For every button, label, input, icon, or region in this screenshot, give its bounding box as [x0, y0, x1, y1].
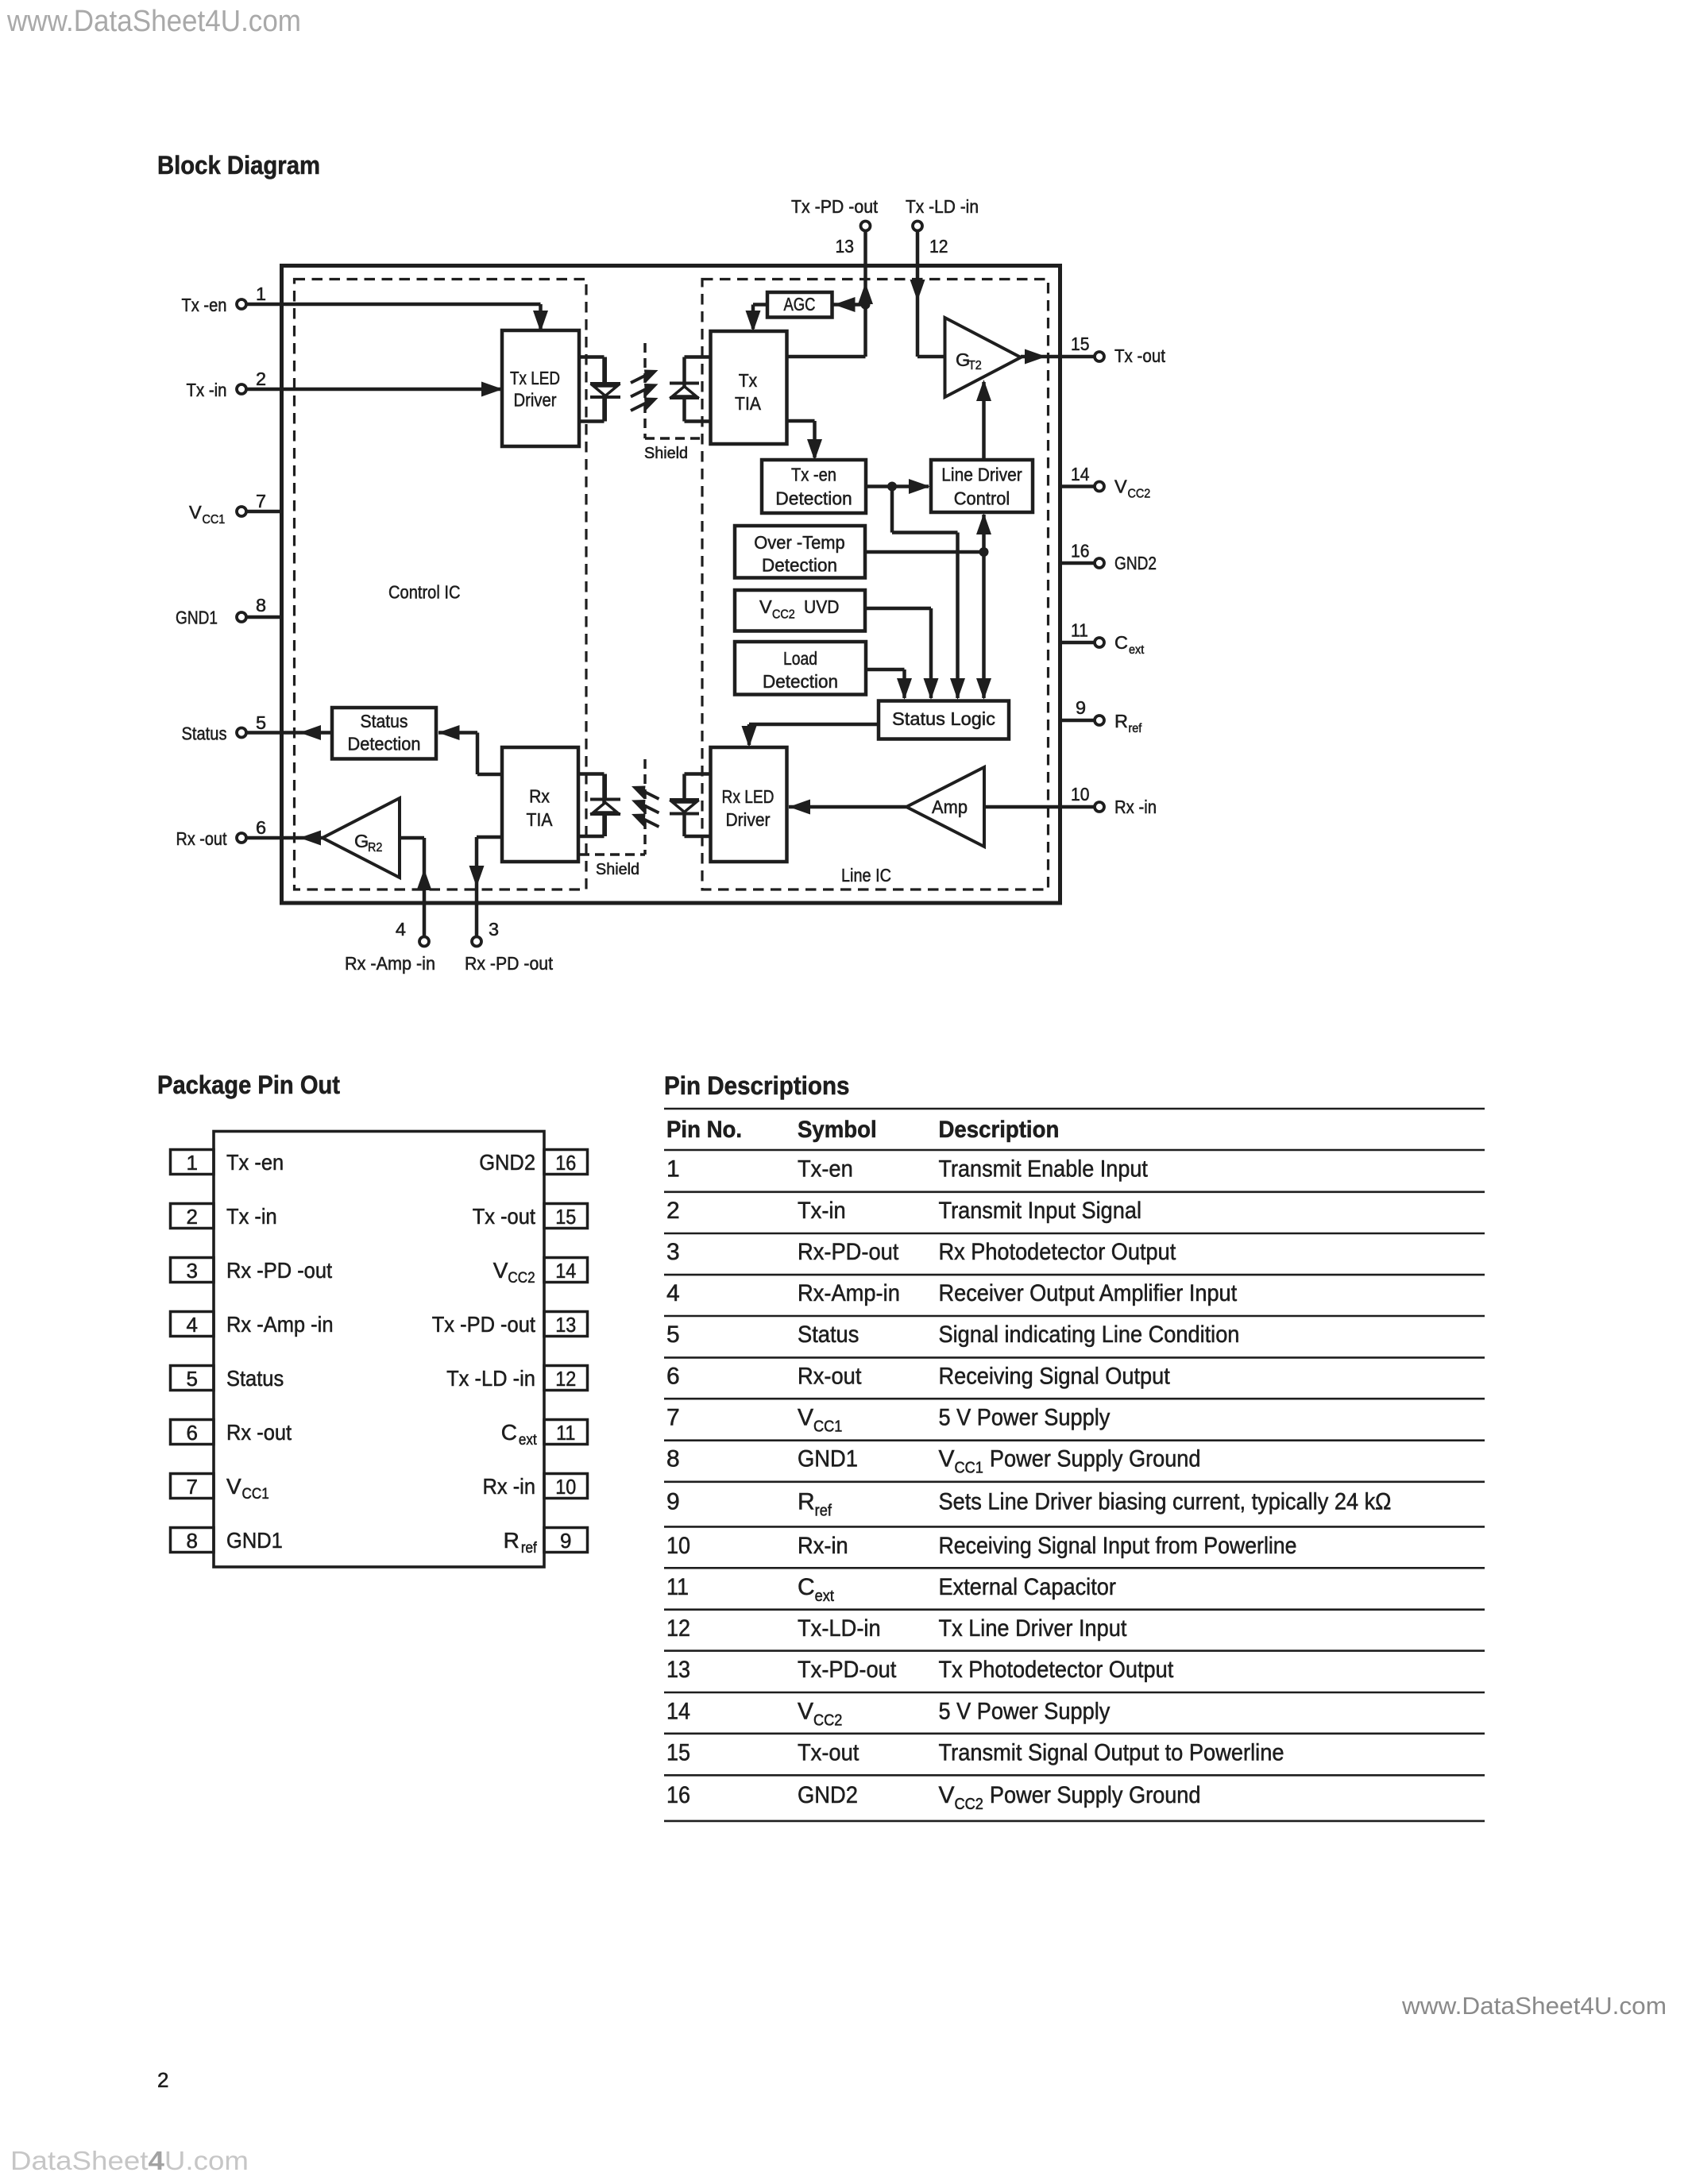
node junction on pin13 line at AGC tap — [861, 300, 871, 310]
svg-text:V: V — [189, 502, 202, 523]
package right pin 10 number — [555, 1475, 576, 1499]
package right pin 9 name Rref — [504, 1528, 538, 1557]
arrowhead into Rx LED Driver top — [742, 726, 757, 747]
svg-text:Detection: Detection — [775, 488, 852, 509]
svg-text:16: 16 — [666, 1782, 690, 1808]
node junction Over-Temp output — [979, 547, 989, 557]
wire AGC tap — [832, 303, 866, 307]
svg-text:14: 14 — [555, 1259, 576, 1283]
svg-text:R: R — [1114, 711, 1128, 731]
wire pin7 Vcc1 stub — [245, 510, 284, 514]
svg-text:8: 8 — [666, 1446, 680, 1472]
package right pin 11 name Cext — [501, 1420, 538, 1449]
heading Block Diagram — [157, 151, 320, 179]
block Over-Temp Detection — [735, 526, 865, 578]
wire Status Detection to pin5 — [245, 731, 332, 735]
svg-text:Power Supply Ground: Power Supply Ground — [990, 1782, 1201, 1808]
pin 4 label Rx-Amp-in — [345, 953, 435, 974]
svg-text:GND2: GND2 — [479, 1150, 535, 1175]
arrowhead Over-Temp branch into Status Logic — [976, 678, 991, 700]
svg-text:CC2: CC2 — [772, 608, 795, 622]
svg-text:www.DataSheet4U.com: www.DataSheet4U.com — [1401, 1992, 1667, 2020]
wire Line Driver Control to GT2 bias — [982, 382, 986, 460]
svg-text:CC1: CC1 — [242, 1486, 269, 1503]
svg-text:10: 10 — [666, 1533, 690, 1559]
svg-text:Rx -out: Rx -out — [176, 828, 227, 849]
package right pin 12 number — [555, 1367, 576, 1391]
svg-text:9: 9 — [666, 1488, 680, 1515]
wire Over-Temp Detection output — [865, 550, 984, 554]
Control IC label — [388, 582, 461, 603]
svg-text:Load: Load — [783, 648, 817, 669]
svg-text:ext: ext — [815, 1588, 835, 1605]
pin 14 terminal — [1095, 482, 1104, 492]
pin 13 terminal — [861, 222, 871, 231]
svg-text:CC1: CC1 — [203, 513, 226, 527]
svg-text:Tx-in: Tx-in — [798, 1198, 846, 1224]
svg-text:11: 11 — [556, 1421, 575, 1445]
Tx light emission arrows — [631, 370, 659, 411]
package left pin 3 number — [187, 1259, 198, 1283]
svg-text:14: 14 — [1071, 464, 1090, 484]
svg-text:Tx-out: Tx-out — [798, 1739, 859, 1765]
wire pin8 GND1 stub — [245, 615, 284, 619]
svg-text:Tx -en: Tx -en — [182, 295, 227, 315]
pin 15 number — [1071, 334, 1090, 354]
pin 10 label Rx-in — [1114, 797, 1157, 817]
package left pin 2 name — [226, 1204, 277, 1229]
svg-text:TIA: TIA — [527, 809, 553, 830]
svg-text:Rx -in: Rx -in — [483, 1474, 536, 1499]
Control IC dashed boundary — [295, 280, 587, 890]
svg-text:Receiving Signal Input from Po: Receiving Signal Input from Powerline — [939, 1533, 1297, 1559]
svg-text:Tx -PD -out: Tx -PD -out — [791, 196, 878, 217]
pin 1 label Tx-en — [182, 295, 227, 315]
package left pin 4 name — [226, 1312, 334, 1337]
pin 4 terminal — [419, 937, 429, 947]
svg-text:R: R — [798, 1488, 815, 1515]
svg-text:Line Driver: Line Driver — [941, 465, 1022, 485]
package left pin 8 box — [171, 1528, 214, 1553]
svg-text:External Capacitor: External Capacitor — [939, 1574, 1116, 1600]
pin 10 number — [1071, 784, 1090, 805]
svg-text:Tx -en: Tx -en — [226, 1150, 284, 1175]
wire Rx TIA to Status Detection — [438, 733, 502, 775]
package left pin 7 name Vcc1 — [226, 1474, 269, 1503]
svg-text:13: 13 — [836, 236, 855, 257]
svg-text:7: 7 — [666, 1404, 680, 1430]
svg-text:Tx -en: Tx -en — [791, 465, 836, 485]
wire pin11 Cext stub — [1062, 641, 1095, 645]
svg-text:3: 3 — [489, 919, 499, 940]
package right pin 16 box — [544, 1150, 588, 1175]
package left pin 2 box — [171, 1204, 214, 1229]
pin 7 number — [256, 491, 266, 511]
wire Tx TIA output to pin13 line — [787, 355, 866, 359]
svg-text:8: 8 — [187, 1529, 198, 1553]
svg-text:Over -Temp: Over -Temp — [754, 532, 845, 553]
svg-text:6: 6 — [256, 817, 266, 838]
svg-text:Receiver Output Amplifier Inpu: Receiver Output Amplifier Input — [939, 1280, 1238, 1306]
package right pin 10 box — [544, 1474, 588, 1499]
table row pin 9 — [666, 1488, 1392, 1519]
package right pin 13 box — [544, 1312, 588, 1337]
wire pin10 Rx-in to Amp — [984, 805, 1095, 809]
pin 8 number — [256, 595, 266, 615]
outer package boundary box — [282, 266, 1060, 904]
svg-text:1: 1 — [256, 284, 266, 304]
svg-text:12: 12 — [929, 236, 948, 257]
svg-text:Control IC: Control IC — [388, 582, 461, 603]
svg-text:C: C — [501, 1420, 517, 1445]
svg-text:GND1: GND1 — [226, 1528, 283, 1553]
package right pin 11 number — [556, 1421, 575, 1445]
arrowhead into Tx-en Detection top — [807, 439, 822, 461]
block Status Detection — [332, 708, 436, 759]
pin 7 terminal — [237, 507, 246, 516]
svg-text:AGC: AGC — [784, 294, 816, 314]
svg-text:CC2: CC2 — [508, 1270, 535, 1287]
svg-text:V: V — [226, 1474, 241, 1499]
op-amp GT2 line driver — [945, 318, 1022, 397]
package right pin 13 number — [555, 1313, 576, 1337]
pin 16 terminal — [1095, 558, 1104, 568]
svg-text:CC2: CC2 — [1128, 488, 1151, 501]
package left pin 6 name — [226, 1420, 292, 1445]
svg-text:ext: ext — [1129, 643, 1145, 657]
wire pin2 Tx-in to Tx LED Driver — [245, 388, 500, 392]
svg-text:5: 5 — [187, 1367, 198, 1391]
svg-text:GND2: GND2 — [798, 1782, 858, 1808]
pin 6 terminal — [237, 833, 246, 843]
package left pin 5 number — [187, 1367, 198, 1391]
package left pin 6 box — [171, 1420, 214, 1445]
Tx photodiode bracket — [685, 357, 711, 422]
svg-text:DataSheet4U.com: DataSheet4U.com — [10, 2147, 249, 2176]
svg-text:16: 16 — [1071, 541, 1090, 561]
svg-text:G: G — [354, 831, 369, 851]
svg-text:10: 10 — [555, 1475, 576, 1499]
Rx light emission arrows — [632, 786, 659, 828]
pin 5 number — [256, 712, 266, 733]
svg-text:Rx-PD-out: Rx-PD-out — [798, 1239, 899, 1265]
svg-text:Rx -Amp -in: Rx -Amp -in — [226, 1312, 334, 1337]
svg-text:Receiving Signal Output: Receiving Signal Output — [939, 1363, 1171, 1389]
table row pin 14 — [666, 1699, 1110, 1730]
package left pin 7 box — [171, 1474, 214, 1499]
svg-text:Tx: Tx — [739, 370, 758, 391]
pin 3 number — [489, 919, 499, 940]
svg-text:ref: ref — [1129, 722, 1142, 735]
svg-text:Rx -PD -out: Rx -PD -out — [226, 1258, 332, 1283]
svg-text:C: C — [1114, 632, 1128, 653]
table row pin 3 — [666, 1239, 1176, 1265]
package right pin 9 number — [560, 1529, 571, 1553]
svg-text:Driver: Driver — [726, 809, 771, 830]
arrowhead pin3 at Control IC boundary pointing down — [469, 866, 485, 887]
wire pin16 GND2 stub — [1062, 561, 1095, 565]
svg-text:Detection: Detection — [763, 671, 838, 692]
svg-text:ext: ext — [519, 1432, 537, 1449]
svg-text:11: 11 — [666, 1574, 689, 1600]
svg-text:R2: R2 — [368, 841, 382, 855]
block Status Logic — [879, 701, 1009, 739]
svg-text:GND2: GND2 — [1114, 553, 1157, 573]
svg-text:Transmit Enable Input: Transmit Enable Input — [939, 1156, 1149, 1183]
svg-text:9: 9 — [560, 1529, 571, 1553]
svg-text:Rx: Rx — [529, 786, 550, 807]
svg-text:Rx-out: Rx-out — [798, 1363, 862, 1389]
table row pin 8 — [666, 1446, 1201, 1477]
table header — [666, 1117, 1059, 1143]
svg-text:1: 1 — [187, 1151, 198, 1175]
package left pin 1 number — [187, 1151, 198, 1175]
op-amp GR2 receiver output amp — [323, 798, 400, 878]
svg-text:15: 15 — [1071, 334, 1090, 354]
svg-text:Package Pin Out: Package Pin Out — [157, 1071, 340, 1099]
table row pin 11 — [666, 1574, 1116, 1605]
svg-text:T2: T2 — [968, 359, 982, 372]
svg-text:Symbol: Symbol — [798, 1117, 877, 1143]
svg-text:Detection: Detection — [348, 734, 421, 754]
svg-text:Driver: Driver — [514, 390, 557, 411]
table row pin 10 — [666, 1533, 1297, 1559]
pin 11 label Cext — [1114, 632, 1145, 657]
arrowhead pin5 at Control IC boundary — [299, 725, 321, 740]
svg-text:CC1: CC1 — [813, 1418, 842, 1435]
svg-text:ref: ref — [521, 1540, 538, 1557]
package right pin 11 box — [544, 1420, 588, 1445]
package right pin 14 name Vcc2 — [493, 1258, 535, 1287]
watermark www.DataSheet4U.com bottom-right — [1401, 1992, 1667, 2020]
Tx LED bracket — [579, 357, 605, 422]
svg-text:Line IC: Line IC — [841, 865, 891, 886]
svg-text:15: 15 — [666, 1739, 690, 1765]
wire pin9 Rref stub — [1062, 719, 1095, 723]
wire Status Logic to Rx LED Driver — [749, 724, 879, 745]
svg-text:Detection: Detection — [762, 555, 837, 576]
wire Vcc2 UVD to Status Logic — [865, 608, 931, 698]
svg-text:Tx-PD-out: Tx-PD-out — [798, 1657, 897, 1683]
pin 5 terminal — [237, 728, 246, 738]
heading Package Pin Out — [157, 1071, 340, 1099]
svg-text:V: V — [939, 1446, 955, 1472]
pin 13 number — [836, 236, 855, 257]
svg-text:C: C — [798, 1574, 815, 1600]
wire GT2 output to pin15 — [1021, 355, 1095, 359]
arrowhead into Tx LED Driver top — [533, 311, 548, 332]
pin 5 label Status — [182, 723, 227, 744]
arrowhead pin13 at Line IC boundary pointing up — [858, 283, 873, 304]
pin 14 number — [1071, 464, 1090, 484]
table row pin 13 — [666, 1657, 1174, 1683]
node junction Tx-en Detection output — [887, 482, 897, 492]
svg-text:6: 6 — [666, 1363, 680, 1389]
pin 15 terminal — [1095, 352, 1104, 361]
svg-text:8: 8 — [256, 595, 266, 615]
block Rx LED Driver — [711, 747, 787, 862]
watermark www.DataSheet4U.com top-left — [6, 5, 301, 38]
svg-text:V: V — [493, 1258, 508, 1283]
svg-text:Pin Descriptions: Pin Descriptions — [664, 1071, 850, 1100]
svg-text:CC2: CC2 — [813, 1712, 842, 1730]
svg-text:GND1: GND1 — [176, 608, 218, 628]
svg-text:Rx -Amp -in: Rx -Amp -in — [345, 953, 435, 974]
pin 13 label Tx-PD-out — [791, 196, 878, 217]
svg-text:15: 15 — [555, 1205, 576, 1229]
pin 11 terminal — [1095, 638, 1104, 647]
svg-text:V: V — [798, 1699, 813, 1725]
wire Rx TIA to pin3 Rx-PD-out — [477, 837, 502, 937]
arrowhead Load Detection into Status Logic — [897, 678, 912, 700]
package right pin 15 name — [473, 1204, 535, 1229]
package left pin 8 number — [187, 1529, 198, 1553]
svg-text:Block Diagram: Block Diagram — [157, 151, 320, 179]
pin 8 terminal — [237, 612, 246, 622]
pin 12 number — [929, 236, 948, 257]
package right pin 15 box — [544, 1204, 588, 1229]
package right pin 14 box — [544, 1258, 588, 1283]
Line IC label — [841, 865, 891, 886]
heading Pin Descriptions — [664, 1071, 850, 1100]
Rx LED bracket — [685, 774, 711, 837]
svg-text:UVD: UVD — [804, 596, 840, 617]
svg-text:Status Logic: Status Logic — [892, 708, 995, 729]
wire pin14 Vcc2 stub — [1062, 484, 1095, 488]
svg-text:4: 4 — [187, 1313, 198, 1337]
table row pin 12 — [666, 1615, 1127, 1642]
block Load Detection — [735, 642, 866, 695]
svg-text:11: 11 — [1071, 620, 1088, 641]
svg-text:V: V — [759, 596, 772, 617]
svg-text:Tx Line Driver Input: Tx Line Driver Input — [939, 1615, 1127, 1642]
pin 2 terminal — [237, 384, 246, 394]
svg-text:9: 9 — [1076, 697, 1086, 718]
svg-text:6: 6 — [187, 1421, 198, 1445]
package left pin 1 box — [171, 1150, 214, 1175]
svg-text:V: V — [939, 1782, 955, 1808]
arrowhead into Line Driver Control bottom — [976, 513, 991, 534]
wire Tx TIA lower output to Tx-en Detection — [787, 421, 815, 457]
svg-text:CC2: CC2 — [955, 1796, 983, 1813]
Rx shield label — [596, 861, 639, 878]
pin 8 label GND1 — [176, 608, 218, 628]
svg-text:Rx-Amp-in: Rx-Amp-in — [798, 1280, 900, 1306]
svg-text:Status: Status — [226, 1366, 284, 1391]
arrowhead into Rx LED Driver right — [789, 800, 810, 815]
Rx photodiode bracket — [578, 774, 605, 837]
svg-text:2: 2 — [187, 1205, 198, 1229]
pin 4 number — [396, 919, 406, 940]
svg-text:V: V — [798, 1404, 813, 1430]
pin 12 label Tx-LD-in — [906, 196, 979, 217]
pin 16 number — [1071, 541, 1090, 561]
block Line Driver Control — [931, 460, 1033, 512]
wire Amp output to Rx LED Driver — [789, 805, 906, 809]
svg-text:13: 13 — [666, 1657, 690, 1683]
svg-text:2: 2 — [256, 369, 266, 389]
pin 6 label Rx-out — [176, 828, 227, 849]
svg-text:7: 7 — [256, 491, 266, 511]
table row pin 1 — [666, 1156, 1148, 1183]
arrowhead pin12 at Line IC boundary pointing down — [910, 280, 925, 301]
svg-text:Control: Control — [954, 488, 1010, 509]
svg-text:Power Supply Ground: Power Supply Ground — [990, 1446, 1201, 1472]
package left pin 6 number — [187, 1421, 198, 1445]
arrowhead pin4 at Control IC boundary pointing up — [417, 869, 432, 890]
package left pin 4 box — [171, 1312, 214, 1337]
wire pin12 Tx-LD-in to GT2 input — [917, 230, 945, 357]
svg-text:Status: Status — [361, 711, 408, 731]
package body outline — [214, 1132, 544, 1568]
svg-text:TIA: TIA — [735, 393, 761, 414]
svg-text:Transmit Signal Output to Powe: Transmit Signal Output to Powerline — [939, 1739, 1284, 1765]
wire Over-Temp branch down to Status Logic — [982, 552, 986, 698]
package left pin 3 name — [226, 1258, 332, 1283]
package left pin 2 number — [187, 1205, 198, 1229]
Rx photodiode — [590, 774, 620, 837]
svg-text:R: R — [504, 1528, 520, 1553]
package right pin 16 number — [555, 1151, 576, 1175]
wire pin13 Tx-PD-out vertical — [863, 230, 867, 357]
svg-text:3: 3 — [666, 1239, 680, 1265]
pin 12 terminal — [913, 222, 922, 231]
pin 10 terminal — [1095, 802, 1104, 812]
svg-text:Tx-LD-in: Tx-LD-in — [798, 1615, 881, 1642]
pin 9 number — [1076, 697, 1086, 718]
svg-text:Tx -LD -in: Tx -LD -in — [906, 196, 979, 217]
wire pin1 Tx-en to Tx LED Driver — [245, 304, 541, 329]
arrowhead into Tx LED Driver left — [481, 382, 503, 397]
svg-text:Rx LED: Rx LED — [722, 786, 774, 807]
svg-text:3: 3 — [187, 1259, 198, 1283]
pin 2 label Tx-in — [187, 380, 227, 400]
package right pin 10 name — [483, 1474, 536, 1499]
svg-text:Tx -LD -in: Tx -LD -in — [446, 1366, 535, 1391]
svg-text:2: 2 — [666, 1198, 680, 1224]
svg-text:CC1: CC1 — [955, 1460, 983, 1477]
arrowhead UVD into Status Logic — [924, 678, 939, 700]
package right pin 12 box — [544, 1366, 588, 1391]
pin 1 number — [256, 284, 266, 304]
arrowhead into Tx TIA top — [746, 311, 761, 332]
package left pin 8 name — [226, 1528, 283, 1553]
table row pin 15 — [666, 1739, 1284, 1765]
svg-text:Tx -in: Tx -in — [187, 380, 227, 400]
package left pin 7 number — [187, 1475, 198, 1499]
table row pin 4 — [666, 1280, 1238, 1306]
svg-text:ref: ref — [815, 1502, 832, 1519]
pin 7 label Vcc1 — [189, 502, 225, 527]
svg-text:Rx-in: Rx-in — [798, 1533, 848, 1559]
block Tx LED Driver — [502, 330, 579, 446]
Rx shield dashed line — [580, 759, 645, 855]
block Vcc2 UVD — [735, 590, 865, 631]
svg-text:13: 13 — [555, 1313, 576, 1337]
op-amp Amp receiver input amp — [906, 767, 984, 847]
arrowhead into GT2 underside — [976, 380, 991, 401]
pin 3 label Rx-PD-out — [465, 953, 553, 974]
svg-text:Tx Photodetector Output: Tx Photodetector Output — [939, 1657, 1174, 1683]
svg-text:Tx -PD -out: Tx -PD -out — [432, 1312, 535, 1337]
svg-text:Tx -in: Tx -in — [226, 1204, 277, 1229]
pin 16 label GND2 — [1114, 553, 1157, 573]
svg-text:Signal indicating Line Conditi: Signal indicating Line Condition — [939, 1322, 1240, 1348]
svg-text:www.DataSheet4U.com: www.DataSheet4U.com — [6, 5, 301, 38]
package left pin 3 box — [171, 1258, 214, 1283]
pin 11 number — [1071, 620, 1088, 641]
block Rx TIA — [502, 747, 578, 862]
